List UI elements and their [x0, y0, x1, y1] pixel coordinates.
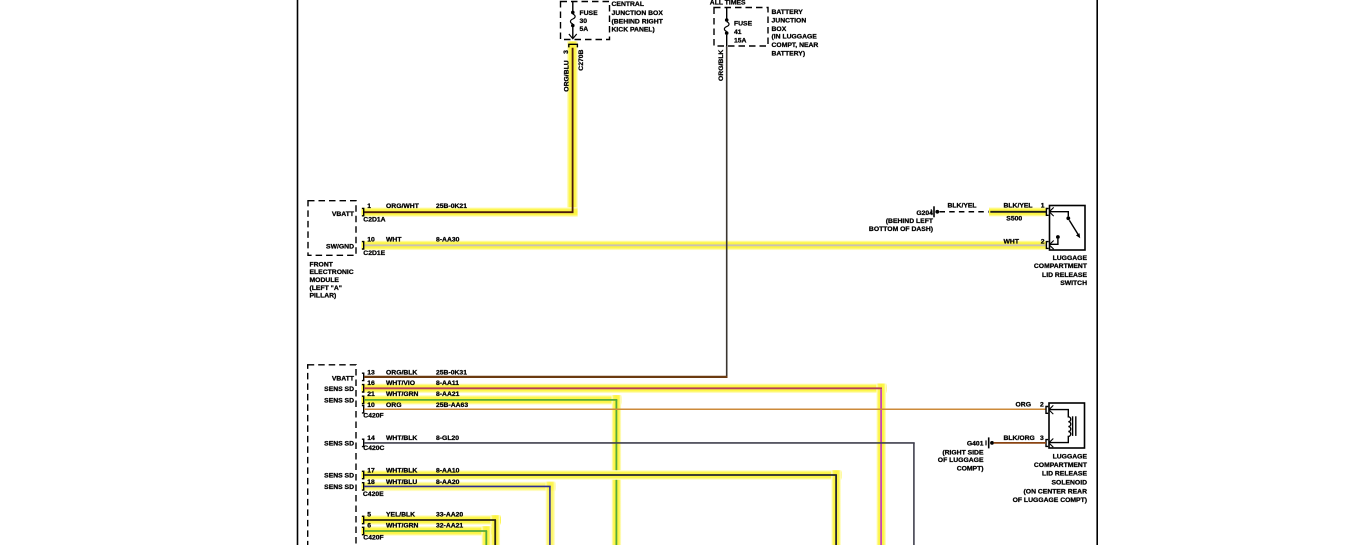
- svg-text:5A: 5A: [580, 26, 589, 33]
- fuse 41 lead top: [726, 8, 728, 19]
- highlight band: WHT wire pin 10: [362, 241, 1047, 251]
- wire ORG/BLU vertical core: [572, 48, 574, 212]
- highlight band: WHT/BLK wire pin 17: [362, 470, 842, 480]
- wire ORG horizontal to solenoid pin 2: [364, 408, 1046, 410]
- solenoid pin 3 terminal bracket: [1046, 440, 1048, 447]
- wire WHT/GRN horizontal core: [364, 399, 617, 401]
- pin 10 terminal bracket: [362, 406, 364, 413]
- svg-text:BOX: BOX: [772, 26, 787, 33]
- svg-text:SENS SD: SENS SD: [324, 473, 354, 480]
- svg-text:25B-0K21: 25B-0K21: [436, 203, 467, 210]
- wire BLK/YEL dashed segment from G204: [940, 211, 989, 213]
- svg-text:VBATT: VBATT: [332, 211, 355, 218]
- diagram left border line: [297, 0, 299, 545]
- wire WHT/BLK horizontal pin 14: [364, 442, 915, 444]
- switch pin 1 terminal bracket: [1046, 209, 1048, 216]
- svg-text:15A: 15A: [734, 38, 747, 45]
- ground G401 symbol: [985, 440, 987, 445]
- highlight band: WHT/GRN wire pin 6: [362, 526, 492, 536]
- wire WHT/GRN vertical core: [615, 400, 617, 545]
- solenoid coil: [1049, 410, 1071, 443]
- wire BLK/YEL core to switch pin 1: [990, 211, 1046, 213]
- solenoid pin 3 terminal ticks: [1050, 439, 1054, 443]
- svg-text:BLK/ORG: BLK/ORG: [1004, 435, 1035, 442]
- svg-text:BLK/YEL: BLK/YEL: [948, 203, 977, 210]
- svg-text:BOTTOM OF DASH): BOTTOM OF DASH): [869, 226, 933, 233]
- wire WHT/BLU vertical core: [549, 486, 551, 545]
- fuse 41 element squiggle: [724, 22, 729, 32]
- fuse 30 top dot: [571, 11, 575, 15]
- svg-text:25B-AA63: 25B-AA63: [436, 402, 468, 409]
- fuse 41 lead bottom: [726, 35, 728, 46]
- svg-text:21: 21: [367, 391, 375, 398]
- svg-text:ORG: ORG: [386, 402, 401, 409]
- wire WHT/VIO horizontal core: [364, 387, 882, 389]
- svg-text:COMPARTMENT: COMPARTMENT: [1034, 263, 1088, 270]
- svg-text:SENS SD: SENS SD: [324, 386, 354, 393]
- pin 18 terminal bracket: [362, 483, 364, 490]
- switch blade arrowhead: [1076, 233, 1080, 238]
- wire WHT/BLK vertical pin 14: [913, 443, 915, 545]
- wire ORG/BLK vertical from fuse 41 to pin 13: [726, 46, 728, 378]
- svg-text:10: 10: [367, 402, 375, 409]
- fuse 41 top dot: [725, 18, 729, 22]
- pin 14 terminal bracket: [362, 439, 364, 446]
- svg-text:JUNCTION: JUNCTION: [772, 18, 807, 25]
- battery junction box (dashed): [714, 8, 768, 47]
- svg-text:2: 2: [1041, 238, 1045, 245]
- wire WHT/VIO vertical core: [880, 389, 882, 545]
- svg-text:8-AA21: 8-AA21: [436, 391, 460, 398]
- highlight band: WHT/GRN vertical: [612, 395, 622, 545]
- svg-text:10: 10: [367, 236, 375, 243]
- svg-text:33-AA20: 33-AA20: [436, 512, 463, 519]
- switch pin 2 internal lead: [1050, 239, 1058, 245]
- svg-text:(RIGHT SIDE: (RIGHT SIDE: [942, 450, 984, 457]
- svg-text:C420F: C420F: [363, 412, 383, 419]
- svg-text:5: 5: [367, 512, 371, 519]
- svg-text:SENS SD: SENS SD: [324, 441, 354, 448]
- svg-text:13: 13: [367, 369, 375, 376]
- diagram right border line: [1096, 0, 1098, 545]
- highlight band: WHT/GRN wire pin 21: [362, 395, 622, 405]
- svg-text:CENTRAL: CENTRAL: [612, 1, 644, 8]
- svg-text:LUGGAGE: LUGGAGE: [1053, 255, 1088, 262]
- switch pin 2 terminal ticks: [1050, 241, 1054, 245]
- svg-text:COMPARTMENT: COMPARTMENT: [1034, 462, 1088, 469]
- connector C270B terminal bracket: [569, 44, 578, 47]
- luggage compartment lid release switch box: [1050, 206, 1086, 251]
- highlight band: WHT/BLU wire pin 18: [362, 482, 556, 492]
- pin 1 terminal bracket: [362, 208, 364, 215]
- pin 16 terminal bracket: [362, 385, 364, 392]
- svg-text:WHT: WHT: [1004, 238, 1020, 245]
- svg-text:WHT/GRN: WHT/GRN: [386, 391, 419, 398]
- svg-text:C2D1A: C2D1A: [363, 217, 385, 224]
- svg-text:S500: S500: [1006, 216, 1022, 223]
- rear electronic module box (dashed): [308, 365, 356, 545]
- svg-text:BLK/YEL: BLK/YEL: [1004, 203, 1033, 210]
- svg-text:SENS SD: SENS SD: [324, 398, 354, 405]
- wire WHT/GRN vertical core pin 6: [485, 531, 487, 545]
- svg-text:COMPT, NEAR: COMPT, NEAR: [772, 42, 819, 49]
- svg-text:WHT: WHT: [386, 236, 402, 243]
- svg-text:BATTERY: BATTERY: [772, 9, 804, 16]
- svg-text:C420E: C420E: [363, 491, 384, 498]
- svg-text:G204: G204: [916, 210, 933, 217]
- highlight band: WHT/GRN vertical pin 6: [482, 526, 492, 545]
- fuse 30 lead top: [572, 2, 574, 12]
- svg-text:17: 17: [367, 468, 375, 475]
- svg-text:ELECTRONIC: ELECTRONIC: [310, 269, 354, 276]
- svg-text:16: 16: [367, 380, 375, 387]
- svg-text:WHT/GRN: WHT/GRN: [386, 523, 419, 530]
- svg-text:ORG: ORG: [1016, 402, 1031, 409]
- svg-text:(LEFT "A": (LEFT "A": [310, 285, 343, 292]
- wire ORG/WHT horizontal core pin 1: [364, 211, 574, 213]
- svg-text:SOLENOID: SOLENOID: [1052, 480, 1088, 487]
- svg-text:(BEHIND LEFT: (BEHIND LEFT: [886, 218, 934, 225]
- highlight band: ORG/BLU vertical wire from fuse 30: [567, 41, 578, 216]
- svg-text:JUNCTION BOX: JUNCTION BOX: [612, 10, 664, 17]
- svg-text:(ON CENTER REAR: (ON CENTER REAR: [1024, 488, 1088, 495]
- fuse 30 bottom dot: [571, 24, 575, 28]
- switch movable blade: [1069, 220, 1078, 235]
- svg-text:30: 30: [580, 18, 588, 25]
- svg-text:(IN LUGGAGE: (IN LUGGAGE: [772, 34, 818, 41]
- svg-text:FUSE: FUSE: [580, 10, 599, 17]
- svg-text:YEL/BLK: YEL/BLK: [386, 512, 415, 519]
- wire WHT core pin 10 to switch pin 2: [364, 244, 1046, 246]
- svg-text:(BEHIND RIGHT: (BEHIND RIGHT: [612, 18, 664, 25]
- pin 13 terminal bracket: [362, 373, 364, 380]
- svg-text:ALL TIMES: ALL TIMES: [710, 0, 746, 6]
- svg-text:18: 18: [367, 479, 375, 486]
- svg-text:LUGGAGE: LUGGAGE: [1053, 454, 1088, 461]
- svg-text:25B-0K31: 25B-0K31: [436, 369, 467, 376]
- fuse 41 bottom dot: [725, 31, 729, 35]
- fuse 30 arrow: [569, 34, 577, 39]
- splice S500 dot: [988, 210, 992, 214]
- svg-text:SENS SD: SENS SD: [324, 484, 354, 491]
- wire WHT/BLK horizontal core pin 17: [364, 474, 837, 476]
- svg-text:SWITCH: SWITCH: [1060, 280, 1087, 287]
- highlight band: YEL/BLK wire pin 5: [362, 515, 502, 525]
- svg-text:PILLAR): PILLAR): [310, 293, 337, 300]
- solenoid pin 2 terminal bracket: [1046, 407, 1048, 414]
- svg-text:8-GL20: 8-GL20: [436, 435, 459, 442]
- switch internal feed from pin 1: [1050, 212, 1069, 217]
- svg-text:SW/GND: SW/GND: [326, 244, 354, 251]
- wire WHT/BLK vertical core pin 17: [835, 475, 837, 545]
- svg-text:8-AA30: 8-AA30: [436, 236, 460, 243]
- wire YEL/BLK vertical core: [494, 520, 496, 545]
- svg-text:ORG/BLU: ORG/BLU: [564, 60, 571, 91]
- pin 17 terminal bracket: [362, 471, 364, 478]
- svg-text:8-AA20: 8-AA20: [436, 479, 460, 486]
- solenoid pin 2 terminal ticks: [1050, 405, 1054, 409]
- front electronic module box (dashed): [308, 201, 356, 256]
- svg-text:41: 41: [734, 29, 742, 36]
- highlight band: YEL/BLK vertical: [491, 515, 501, 545]
- svg-text:C420F: C420F: [363, 534, 383, 541]
- svg-text:1: 1: [1041, 203, 1045, 210]
- fuse 30 element squiggle: [570, 14, 575, 24]
- svg-text:LID RELEASE: LID RELEASE: [1042, 471, 1087, 478]
- highlight band: BLK/YEL wire to switch pin 1: [989, 207, 1047, 216]
- switch pin 2 terminal bracket: [1046, 242, 1048, 249]
- wire WHT/BLU horizontal core: [364, 485, 551, 487]
- svg-text:WHT/BLK: WHT/BLK: [386, 468, 417, 475]
- svg-text:C420C: C420C: [363, 445, 384, 452]
- svg-text:6: 6: [367, 523, 371, 530]
- svg-text:C2D1E: C2D1E: [363, 250, 385, 257]
- svg-text:COMPT): COMPT): [957, 465, 984, 472]
- highlight band: WHT/BLK vertical pin 17: [831, 470, 841, 545]
- svg-text:8-AA11: 8-AA11: [436, 380, 459, 387]
- svg-text:G401: G401: [967, 441, 984, 448]
- svg-text:WHT/BLK: WHT/BLK: [386, 435, 417, 442]
- svg-text:WHT/VIO: WHT/VIO: [386, 380, 415, 387]
- pin 5 terminal bracket: [362, 516, 364, 523]
- svg-text:14: 14: [367, 435, 375, 442]
- switch fixed contact dot: [1066, 216, 1070, 220]
- wire ORG/BLK horizontal pin 13: [364, 376, 728, 378]
- svg-text:ORG/WHT: ORG/WHT: [386, 203, 420, 210]
- svg-text:KICK PANEL): KICK PANEL): [612, 27, 655, 34]
- wire YEL/BLK horizontal core: [364, 519, 496, 521]
- svg-text:C270B: C270B: [578, 49, 585, 70]
- svg-text:3: 3: [563, 50, 570, 54]
- solenoid core lines: [1072, 416, 1074, 436]
- wire WHT/GRN horizontal core pin 6: [364, 530, 487, 532]
- wire BLK/ORG from G401 to solenoid pin 3: [994, 442, 1046, 444]
- fuse 30 lead bottom: [572, 27, 574, 39]
- svg-text:FUSE: FUSE: [734, 20, 753, 27]
- highlight band: WHT/BLU vertical: [546, 482, 556, 545]
- svg-text:3: 3: [1040, 435, 1044, 442]
- pin 10 terminal bracket: [362, 242, 364, 249]
- svg-text:LID RELEASE: LID RELEASE: [1042, 272, 1087, 279]
- svg-text:WHT/BLU: WHT/BLU: [386, 479, 417, 486]
- svg-text:ORG/BLK: ORG/BLK: [386, 369, 417, 376]
- svg-text:OF LUGGAGE COMPT): OF LUGGAGE COMPT): [1013, 497, 1087, 504]
- svg-text:2: 2: [1040, 402, 1044, 409]
- svg-text:VBATT: VBATT: [332, 376, 355, 383]
- highlight band: ORG/WHT horizontal wire pin 1: [362, 207, 578, 217]
- svg-text:1: 1: [367, 203, 371, 210]
- svg-text:8-AA10: 8-AA10: [436, 468, 460, 475]
- luggage compartment lid release solenoid box: [1049, 403, 1085, 448]
- highlight band: WHT/VIO vertical: [876, 384, 886, 545]
- pin 21 terminal bracket: [362, 396, 364, 403]
- highlight band: WHT/VIO wire pin 16: [362, 384, 887, 394]
- svg-text:32-AA21: 32-AA21: [436, 523, 463, 530]
- svg-text:ORG/BLK: ORG/BLK: [718, 50, 725, 81]
- central junction box (dashed): [561, 2, 610, 40]
- svg-text:MODULE: MODULE: [310, 277, 340, 284]
- pin 6 terminal bracket: [362, 527, 364, 534]
- switch pin 1 terminal ticks: [1050, 207, 1054, 211]
- switch pin 2 contact dot: [1056, 235, 1060, 239]
- svg-text:BATTERY): BATTERY): [772, 50, 806, 57]
- svg-text:FRONT: FRONT: [310, 261, 334, 268]
- ground G204 symbol: [930, 209, 932, 214]
- svg-text:OF LUGGAGE: OF LUGGAGE: [938, 457, 984, 464]
